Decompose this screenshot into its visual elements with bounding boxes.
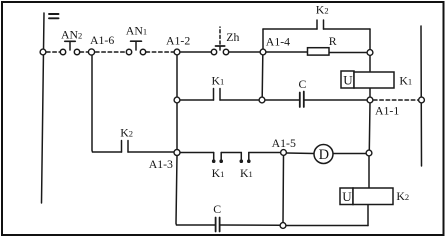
svg-text:Zh: Zh xyxy=(226,30,239,44)
wire A1-5 to meter D xyxy=(287,152,314,155)
node row2 left xyxy=(174,97,180,103)
wire node to capacitor C xyxy=(265,99,299,101)
wire A1-4 drop to row2 xyxy=(261,55,264,97)
svg-text:A1-2: A1-2 xyxy=(166,34,190,48)
svg-text:K2: K2 xyxy=(120,126,133,140)
wire A1-4 up to K2 branch xyxy=(262,29,264,49)
svg-text:K1: K1 xyxy=(240,166,253,180)
wire dashed AN1 to A1-2 xyxy=(146,51,174,53)
wire bottom node to relay K2 drop xyxy=(286,225,368,227)
wire dashed AN2 to A1-6 xyxy=(80,51,88,53)
svg-text:AN2: AN2 xyxy=(61,28,82,42)
meter D xyxy=(314,145,333,164)
svg-text:C: C xyxy=(299,77,307,91)
wire A1-2 to Zh xyxy=(180,51,212,53)
wire K2 branch right xyxy=(324,28,371,30)
node top-right xyxy=(367,50,373,56)
node bottom xyxy=(280,223,286,229)
svg-text:U: U xyxy=(343,73,353,88)
contact K1 (row2, NO) xyxy=(214,89,221,101)
node A1-5 xyxy=(281,150,287,156)
wire K1 contact to A1-5 xyxy=(249,152,281,154)
push button AN1 xyxy=(126,41,145,55)
capacitor C (bottom) xyxy=(216,218,220,232)
svg-text:C: C xyxy=(213,202,221,216)
node row2 mid xyxy=(259,97,265,103)
wire dashed bus to AN2 xyxy=(47,51,61,53)
wire row2 node to K1 contact xyxy=(180,99,214,101)
capacitor C (row2) xyxy=(300,92,304,108)
push button Zh xyxy=(211,27,228,55)
node on right bus xyxy=(419,97,425,103)
contact K2 (row3, NO) xyxy=(122,141,129,153)
wire Zh to A1-4 xyxy=(229,51,261,53)
svg-text:A1-4: A1-4 xyxy=(266,35,290,49)
contact K1 (row3 first, with pin dots) xyxy=(214,153,222,162)
resistor R xyxy=(308,48,330,55)
wire C to bottom node xyxy=(220,224,280,226)
relay coil K1 with U unit xyxy=(341,71,394,88)
wire K2 contact to A1-3 xyxy=(128,151,174,153)
svg-text:K1: K1 xyxy=(212,74,225,88)
wire A1-1 node down to row3 node xyxy=(368,103,371,150)
wire meter D to right node xyxy=(333,153,366,155)
wire relay K1 out to node A1-1 xyxy=(369,88,371,97)
wire R to top-right node xyxy=(329,52,368,54)
wire A1-6 drop to row3 xyxy=(92,55,122,152)
node A1-2 xyxy=(174,49,180,55)
node on left bus xyxy=(40,49,46,55)
wire K2 branch left xyxy=(263,28,317,30)
node A1-1 xyxy=(367,97,373,103)
wire A1-3 drop to bottom row xyxy=(176,156,215,226)
svg-text:D: D xyxy=(319,147,329,163)
svg-text:A1-6: A1-6 xyxy=(90,33,114,47)
DC symbol = xyxy=(49,14,59,18)
left DC bus xyxy=(42,13,45,203)
node A1-4 xyxy=(260,49,266,55)
wire K2 branch down to node xyxy=(369,29,371,50)
node row3 right xyxy=(366,150,372,156)
wire between K1 contacts xyxy=(221,152,241,154)
svg-text:R: R xyxy=(329,34,337,48)
wire A1-5 drop to bottom row xyxy=(282,156,285,223)
svg-text:K2: K2 xyxy=(316,3,329,17)
contact K1 (row3 second, with pin dots) xyxy=(241,153,249,162)
svg-text:AN1: AN1 xyxy=(126,24,147,38)
node A1-3 xyxy=(174,150,180,156)
svg-text:A1-1: A1-1 xyxy=(375,104,399,118)
right bus xyxy=(420,26,423,166)
svg-text:A1-3: A1-3 xyxy=(149,157,173,171)
wire A1-4 to R xyxy=(266,51,308,53)
wire node down into relay K2 xyxy=(368,156,370,188)
wire A1-3 to first K1 contact xyxy=(181,152,214,154)
wire C to relay node xyxy=(305,99,368,101)
wire K1 contact to node xyxy=(220,99,259,101)
wire dashed A1-1 to right bus xyxy=(374,99,419,101)
push button AN2 xyxy=(60,41,79,54)
svg-text:K2: K2 xyxy=(396,189,409,203)
svg-text:K1: K1 xyxy=(399,74,412,88)
node A1-6 xyxy=(88,49,94,55)
svg-text:K1: K1 xyxy=(212,166,225,180)
wire node down into relay K1 xyxy=(369,55,371,71)
wire relay K2 out to bottom row xyxy=(367,204,369,226)
wire row2 node drop to A1-3 xyxy=(176,103,178,150)
relay coil K2 with U unit xyxy=(340,188,393,205)
wire A1-2 drop to row2 node xyxy=(176,55,178,97)
svg-text:A1-5: A1-5 xyxy=(272,136,296,150)
wire dashed A1-6 to AN1 xyxy=(96,51,127,53)
contact K2 (top, NO) xyxy=(317,20,324,29)
svg-text:U: U xyxy=(342,189,352,204)
